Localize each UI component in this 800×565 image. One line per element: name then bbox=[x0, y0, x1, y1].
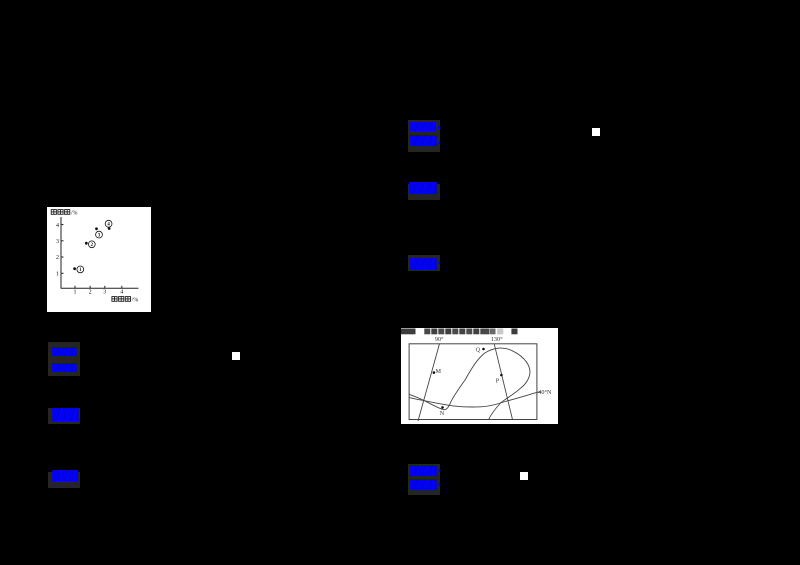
map white background bbox=[401, 328, 558, 424]
y axis label 出生率/% (fake glyphs) bbox=[51, 210, 70, 215]
data point dots 1-4 bbox=[73, 227, 110, 270]
city dots Q M P N bbox=[433, 348, 503, 409]
axis tick marks bbox=[61, 225, 122, 289]
blue answer block A (two lines) bbox=[48, 342, 80, 376]
white square bullet 1 bbox=[232, 352, 240, 360]
svg-text:P: P bbox=[496, 378, 500, 385]
svg-text:2: 2 bbox=[56, 255, 59, 261]
map text labels 90/130/40N/Q/M/P/N bbox=[435, 336, 552, 417]
svg-text:4: 4 bbox=[56, 223, 59, 229]
chart white background bbox=[47, 207, 151, 312]
circled number digits bbox=[79, 222, 110, 273]
blue block G (two lines) bbox=[408, 464, 440, 495]
svg-text:40°N: 40°N bbox=[538, 389, 552, 396]
region outline bbox=[409, 348, 530, 420]
svg-text:M: M bbox=[435, 368, 441, 375]
svg-text:4: 4 bbox=[120, 289, 123, 295]
blue block B bbox=[48, 408, 80, 424]
circled number markers bbox=[77, 220, 112, 272]
blue block D (two lines) bbox=[408, 120, 440, 152]
blue block E bbox=[408, 184, 440, 200]
map figure bbox=[401, 328, 558, 424]
scatter chart figure bbox=[47, 207, 151, 312]
chart axes (y and x) bbox=[61, 217, 139, 289]
svg-text:1: 1 bbox=[56, 272, 59, 278]
blue block F bbox=[408, 255, 440, 271]
latitude 40N bbox=[409, 391, 540, 407]
svg-text:N: N bbox=[440, 410, 445, 417]
meridian 90 and meridian 130 bbox=[418, 344, 513, 421]
blue block C bbox=[48, 472, 80, 488]
svg-text:2: 2 bbox=[89, 289, 92, 295]
border bbox=[409, 344, 537, 420]
svg-text:130°: 130° bbox=[491, 336, 503, 343]
white square bullet 3 bbox=[520, 472, 528, 480]
svg-text:Q: Q bbox=[476, 347, 481, 354]
svg-text:/%: /% bbox=[132, 297, 139, 303]
svg-text:90°: 90° bbox=[435, 336, 444, 343]
caption blobs (cut-off text row) bbox=[401, 329, 518, 335]
white square bullet 2 bbox=[592, 128, 600, 136]
svg-text:/%: /% bbox=[71, 210, 78, 216]
x axis label 死亡率/% (fake glyphs) bbox=[112, 297, 131, 302]
svg-text:3: 3 bbox=[103, 289, 106, 295]
svg-text:3: 3 bbox=[56, 239, 59, 245]
svg-text:1: 1 bbox=[74, 289, 77, 295]
axis tick numerals bbox=[56, 223, 123, 295]
